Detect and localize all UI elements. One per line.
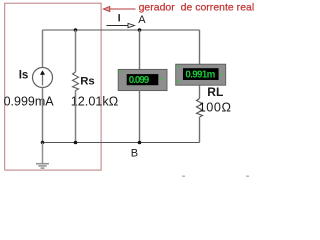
wire: bottom rail <box>43 142 200 144</box>
svg-text:100Ω: 100Ω <box>199 101 232 115</box>
junction dot Rs bottom <box>74 141 78 145</box>
svg-text:gerador de corrente real: gerador de corrente real <box>139 3 255 14</box>
svg-text:0.099: 0.099 <box>129 75 150 86</box>
ground <box>36 143 49 169</box>
ammeter M1 (reads 0.099) <box>118 69 167 90</box>
resistor RL zigzag <box>197 99 203 118</box>
wire: Rs branch bottom <box>75 91 77 143</box>
svg-text:0.991m: 0.991m <box>185 70 215 81</box>
wire: Is branch bottom <box>42 88 44 143</box>
svg-text:A: A <box>138 14 146 26</box>
node B junction dot <box>138 141 142 145</box>
junction dot ground <box>41 141 45 145</box>
wire: RL bottom <box>199 117 201 143</box>
current label I <box>118 14 120 21</box>
junction dot Rs top <box>74 28 78 32</box>
svg-text:B: B <box>131 148 138 160</box>
wire: meter2 to RL <box>199 85 201 98</box>
wire: meter1 branch bottom (meter to B) <box>139 91 141 143</box>
ammeter M2 (reads 0.991m) <box>176 64 226 85</box>
wire: Is branch top <box>42 30 44 68</box>
svg-text:Rs: Rs <box>80 76 95 88</box>
resistor Rs zigzag <box>73 72 79 91</box>
current arrow I <box>107 23 135 27</box>
annotation arrow pointing at box <box>103 6 135 11</box>
wire: meter2/RL branch top <box>199 30 201 64</box>
annotation box (red outline around real current generator) <box>5 3 101 170</box>
wire: meter1 branch top (A to meter) <box>139 30 141 69</box>
svg-text:12.01kΩ: 12.01kΩ <box>71 95 119 109</box>
svg-text:0.999mA: 0.999mA <box>4 95 55 109</box>
wire: top rail from Is branch to RL branch <box>43 29 200 31</box>
cut-off marks at bottom edge <box>182 176 249 178</box>
resistor Rs branch: top wire <box>75 30 77 72</box>
svg-text:Is: Is <box>19 69 29 82</box>
current source Is <box>33 68 53 88</box>
svg-text:RL: RL <box>207 85 223 99</box>
node A junction dot <box>138 28 142 32</box>
